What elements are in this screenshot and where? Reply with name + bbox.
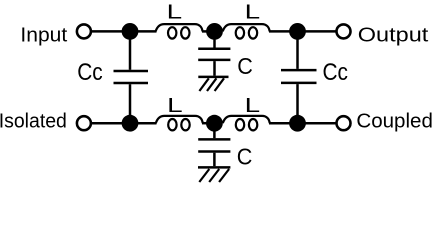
- wire N6 to P4: [298, 122, 337, 125]
- node N2 (top-middle junction): [206, 23, 223, 40]
- label L of inductor L1: [167, 2, 183, 24]
- svg-text:Cc: Cc: [77, 59, 103, 86]
- node N1 (top-left junction): [122, 23, 139, 40]
- svg-text:C: C: [237, 53, 253, 79]
- label C of capacitor C2: [237, 144, 253, 170]
- port label Output: [358, 25, 429, 47]
- terminal P1 (Input): [77, 24, 91, 38]
- node N4 (bottom-left junction): [122, 115, 139, 132]
- label L of inductor L4: [245, 95, 261, 117]
- node N6 (bottom-right junction): [289, 115, 306, 132]
- capacitor C1 (top shunt capacitor): [198, 31, 230, 75]
- svg-text:L: L: [245, 2, 261, 24]
- svg-text:C: C: [237, 144, 253, 170]
- node N3 (top-right junction): [289, 23, 306, 40]
- svg-text:L: L: [245, 95, 261, 117]
- svg-text:Input: Input: [20, 25, 67, 47]
- svg-text:Output: Output: [358, 25, 429, 47]
- wire N3 to P2: [298, 30, 337, 33]
- node N5 (bottom-middle junction): [206, 115, 223, 132]
- port label Coupled: [356, 110, 433, 132]
- ground GND2 (bottom): [198, 167, 230, 182]
- inductor L3: [156, 116, 203, 130]
- inductor L2: [223, 24, 270, 38]
- wire N1 to L1: [130, 30, 157, 33]
- wire P3 to node N4: [91, 122, 130, 125]
- port label Input: [20, 25, 67, 47]
- label C of capacitor C1: [237, 53, 253, 79]
- terminal P4 (Coupled): [337, 116, 351, 130]
- wire P1 to node N1: [91, 30, 130, 33]
- terminal P3 (Isolated): [77, 116, 91, 130]
- capacitor Cc1 (left coupling capacitor): [114, 31, 149, 123]
- svg-text:L: L: [167, 95, 183, 117]
- inductor L4: [223, 116, 270, 130]
- wire L1 to node N2: [202, 30, 215, 33]
- ground GND1 (top): [198, 77, 228, 91]
- svg-text:Coupled: Coupled: [356, 110, 433, 132]
- terminal P2 (Output): [337, 24, 351, 38]
- svg-text:Isolated: Isolated: [0, 110, 67, 132]
- inductor L1: [156, 24, 203, 38]
- svg-text:L: L: [167, 2, 183, 24]
- capacitor Cc2 (right coupling capacitor): [281, 31, 317, 123]
- label L of inductor L2: [245, 2, 261, 24]
- port label Isolated: [0, 110, 67, 132]
- wire L2 to node N3: [269, 30, 298, 33]
- label Cc of right coupling capacitor: [323, 59, 349, 86]
- label L of inductor L3: [167, 95, 183, 117]
- capacitor C2 (bottom shunt capacitor): [198, 123, 230, 166]
- wire L4 to node N6: [269, 122, 298, 125]
- wire L3 to node N5: [202, 122, 215, 125]
- label Cc of left coupling capacitor: [77, 59, 103, 86]
- wire N4 to L3: [130, 122, 157, 125]
- svg-text:Cc: Cc: [323, 59, 349, 86]
